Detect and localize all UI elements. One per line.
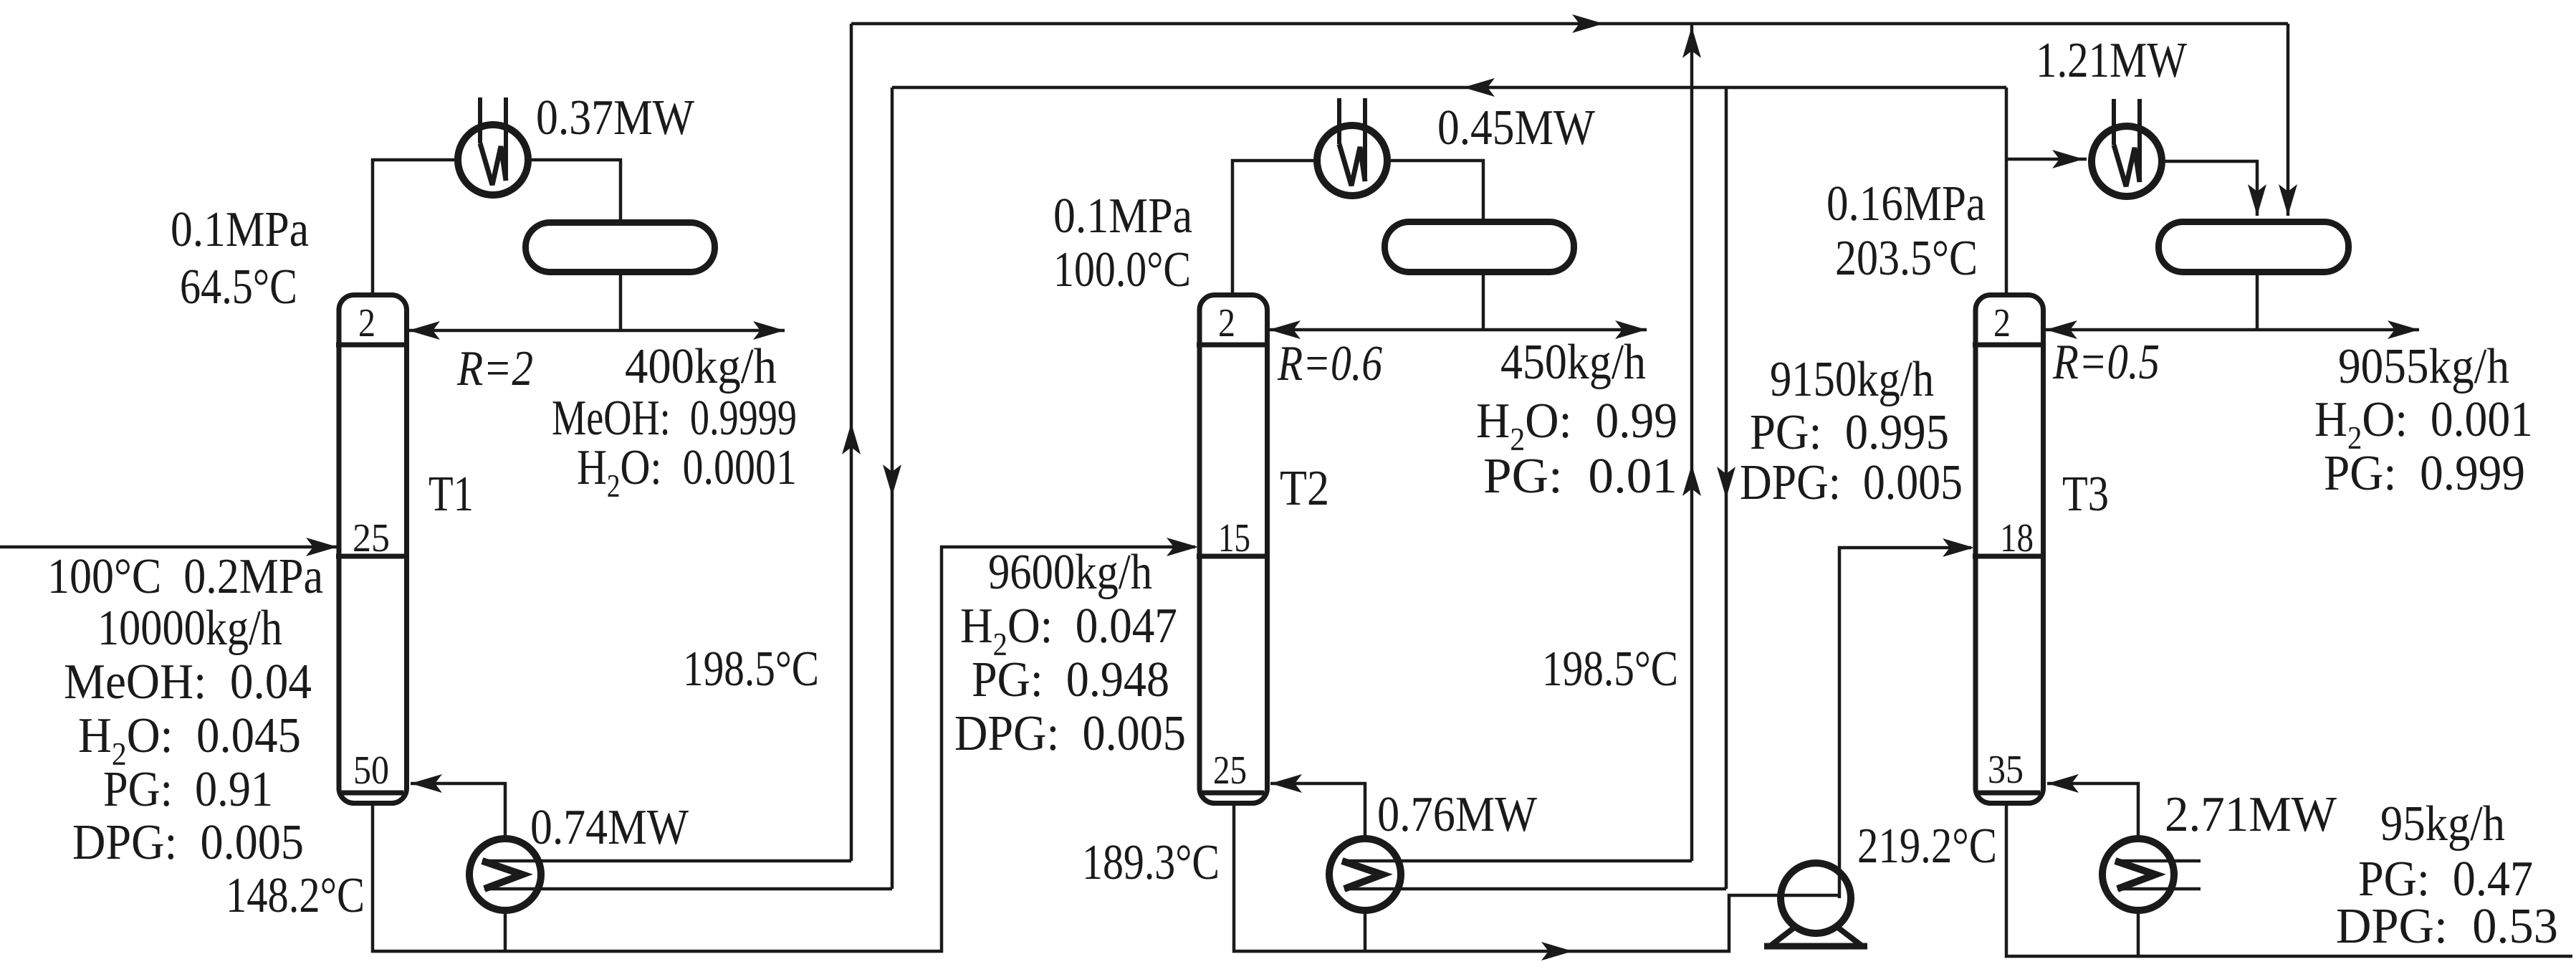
pump P1 circle	[1781, 863, 1851, 933]
column T2	[1200, 295, 1268, 804]
reflux drum D3	[2159, 222, 2349, 272]
wire: E6 steam stub (bottom)	[2117, 887, 2201, 891]
reboiler E2 circle (0.74MW)	[469, 839, 541, 910]
condenser E5 tube left	[2112, 99, 2116, 145]
wire: T3 vapor branch to condenser E5	[2006, 158, 2087, 161]
wire: T1 bottoms to T2 feed	[373, 547, 1195, 951]
wire: D3 outlet downcomer	[2256, 275, 2259, 330]
arrow: into drum D3 from header	[2279, 184, 2297, 216]
svg-text:MeOH: 0.04: MeOH: 0.04	[64, 654, 312, 710]
wire: T3 reflux / product line	[2046, 328, 2419, 332]
reflux drum D2	[1385, 222, 1574, 272]
svg-text:PG: 0.999: PG: 0.999	[2324, 446, 2525, 501]
wire: T3 bottoms line	[2006, 806, 2572, 956]
wire: D2 outlet downcomer	[1482, 275, 1485, 330]
svg-text:100.0°C: 100.0°C	[1053, 242, 1191, 297]
arrow: top header flow right	[1572, 14, 1604, 33]
column T3 top divider (stage 2)	[1973, 343, 2046, 348]
condenser E3 circle (0.45MW)	[1317, 125, 1387, 196]
svg-text:0.1MPa: 0.1MPa	[1053, 189, 1192, 244]
wire: reboiler E4 liquid draw	[1364, 910, 1367, 951]
wire: heating supply drop to E2	[891, 87, 894, 889]
pump P1 left foot	[1770, 928, 1794, 946]
column T3 bottom lens line	[1978, 791, 2040, 796]
svg-text:0.45MW: 0.45MW	[1437, 100, 1595, 156]
arrow: T2 distillate product out	[1615, 320, 1647, 339]
svg-text:0.74MW: 0.74MW	[530, 800, 689, 855]
column T2 top divider (stage 2)	[1197, 343, 1270, 348]
arrow: reflux into T3	[2046, 320, 2077, 339]
wire: T1 overhead vapor line	[373, 160, 454, 294]
svg-text:189.3°C: 189.3°C	[1082, 835, 1220, 890]
wire: E1 outlet to drum D1	[532, 160, 621, 219]
svg-text:25: 25	[353, 516, 390, 561]
svg-text:DPG: 0.005: DPG: 0.005	[954, 706, 1186, 761]
column T1 bottom lens line	[342, 791, 403, 796]
condenser E3 coil W	[1339, 144, 1365, 186]
wire: condensate riser from E2 to top header	[850, 24, 853, 861]
svg-text:198.5°C: 198.5°C	[1542, 642, 1678, 697]
svg-text:T1: T1	[428, 467, 474, 522]
svg-text:18: 18	[2000, 516, 2034, 561]
arrow: supply header flow left	[1463, 78, 1495, 97]
svg-text:DPG: 0.53: DPG: 0.53	[2336, 899, 2558, 954]
arrow: supply down flow	[883, 464, 901, 496]
wire: D1 outlet downcomer	[619, 275, 623, 330]
arrow: feed into T1 stage 25	[306, 538, 337, 556]
svg-text:R=2: R=2	[456, 341, 533, 396]
condenser E1 tube left	[478, 97, 482, 143]
svg-text:198.5°C: 198.5°C	[683, 642, 819, 697]
svg-text:PG: 0.995: PG: 0.995	[1750, 405, 1949, 460]
wire: T1 reflux / distillate product line	[408, 329, 785, 333]
arrow: T2 bottoms flow right	[1541, 942, 1573, 961]
wire: heating supply drop to E4	[1725, 87, 1728, 889]
arrow: return into T1 bottom	[411, 774, 442, 793]
wire: condensate riser from E4 to top header	[1690, 24, 1694, 861]
wire: reboiler E2 liquid draw	[504, 910, 507, 951]
wire: E5 outlet to drum D3	[2165, 161, 2257, 216]
condenser E3 tube left	[1337, 98, 1341, 144]
wire: E6 steam stub (top)	[2115, 859, 2201, 863]
svg-text:9600kg/h: 9600kg/h	[988, 545, 1152, 600]
condenser E1 tube right	[504, 97, 508, 181]
arrow: riser up flow lower	[1682, 464, 1701, 496]
arrow: reflux into T2	[1269, 320, 1301, 339]
svg-text:0.37MW: 0.37MW	[536, 90, 694, 146]
column T3 feed divider (stage 18)	[1973, 554, 2046, 559]
column T2 feed divider (stage 15)	[1197, 554, 1270, 559]
arrow: supply down flow to E4	[1717, 467, 1735, 498]
arrow: return into T3 bottom	[2047, 774, 2079, 793]
svg-text:0.1MPa: 0.1MPa	[171, 202, 309, 257]
arrow: return into T2 bottom	[1270, 774, 1302, 793]
svg-text:450kg/h: 450kg/h	[1500, 335, 1646, 390]
wire: heat-integration supply header (to reboilers)	[892, 86, 2006, 90]
svg-text:2: 2	[1218, 301, 1235, 346]
svg-text:PG: 0.91: PG: 0.91	[103, 762, 273, 817]
svg-text:219.2°C: 219.2°C	[1857, 819, 1997, 874]
condenser E5 tube right	[2137, 99, 2142, 182]
svg-text:PG: 0.948: PG: 0.948	[972, 652, 1169, 707]
svg-text:2: 2	[1993, 301, 2011, 346]
condenser E5 circle (1.21MW)	[2092, 126, 2162, 196]
wire: T2 overhead vapor line	[1232, 161, 1314, 297]
reboiler E4 circle (0.76MW)	[1329, 839, 1401, 910]
svg-text:95kg/h: 95kg/h	[2380, 796, 2505, 852]
svg-text:10000kg/h: 10000kg/h	[97, 601, 282, 656]
column T1	[339, 295, 407, 804]
pump P1 right foot	[1838, 928, 1862, 946]
arrow: feed into T3 stage 18	[1943, 538, 1974, 557]
arrow: into condenser E5	[2052, 150, 2084, 168]
svg-text:9055kg/h: 9055kg/h	[2338, 339, 2509, 394]
wire: T2 bottoms line to pump	[1234, 806, 1839, 951]
arrow: feed into T2 stage 15	[1167, 538, 1198, 556]
svg-text:35: 35	[1988, 748, 2024, 792]
svg-text:PG: 0.01: PG: 0.01	[1483, 449, 1677, 504]
wire: reboiler E6 liquid draw	[2137, 910, 2140, 956]
wire: pump discharge to T3 feed	[1839, 548, 1971, 898]
wire: E3 outlet to drum D2	[1391, 161, 1483, 219]
wire: E2 heating outlet pipe (top)	[482, 859, 851, 863]
wire: E2 heating inlet pipe (bottom)	[484, 887, 892, 891]
svg-text:2: 2	[358, 301, 375, 346]
arrow: distillate product out	[753, 321, 785, 340]
svg-text:148.2°C: 148.2°C	[226, 868, 365, 923]
reboiler E6 coil sigma	[2115, 861, 2155, 889]
svg-text:203.5°C: 203.5°C	[1835, 231, 1978, 286]
condenser E3 tube right	[1363, 98, 1367, 181]
pump P1 base bar	[1764, 943, 1867, 950]
svg-text:15: 15	[1218, 516, 1250, 561]
wire: reboiler E2 vapor return to T1	[411, 783, 505, 839]
svg-text:0.76MW: 0.76MW	[1377, 787, 1537, 842]
svg-text:T2: T2	[1280, 461, 1329, 516]
svg-text:64.5°C: 64.5°C	[180, 259, 297, 315]
wire: T2 reflux / distillate product line	[1269, 328, 1647, 332]
wire: feed line to T1	[0, 545, 337, 549]
svg-text:DPG: 0.005: DPG: 0.005	[72, 815, 304, 870]
arrow: T3 distillate product out	[2388, 320, 2419, 339]
column T1 feed divider (stage 25)	[336, 554, 409, 559]
condenser E1 coil W	[480, 143, 506, 185]
svg-text:DPG: 0.005: DPG: 0.005	[1740, 455, 1963, 510]
wire: E4 heating outlet pipe (top)	[1342, 859, 1692, 863]
column T3	[1976, 295, 2044, 804]
condenser E1 circle	[458, 125, 528, 195]
column T1 top divider (stage 2)	[336, 343, 409, 348]
reboiler E4 coil sigma	[1342, 861, 1382, 889]
wire: condensate return top header	[851, 22, 2288, 26]
arrow: into drum D3 from condenser	[2248, 184, 2266, 216]
svg-text:25: 25	[1213, 748, 1247, 793]
svg-text:2.71MW: 2.71MW	[2165, 787, 2337, 842]
arrow: riser up flow	[842, 423, 861, 454]
reboiler E6 circle (2.71MW)	[2102, 839, 2174, 910]
condenser E5 coil W	[2114, 145, 2140, 186]
arrow: riser up flow upper	[1682, 27, 1701, 58]
wire: E4 heating inlet pipe (bottom)	[1344, 887, 1726, 891]
wire: T3 overhead vapor riser to heat-integration header	[2005, 87, 2008, 297]
column T2 bottom lens line	[1202, 791, 1264, 796]
arrow: reflux into T1	[408, 321, 440, 340]
wire: reboiler E6 vapor return to T3	[2047, 783, 2138, 839]
svg-text:50: 50	[353, 748, 389, 793]
svg-text:100°C 0.2MPa: 100°C 0.2MPa	[47, 549, 323, 604]
svg-text:9150kg/h: 9150kg/h	[1770, 352, 1934, 407]
svg-text:0.16MPa: 0.16MPa	[1826, 176, 1986, 232]
svg-text:T3: T3	[2062, 467, 2109, 522]
reboiler E2 coil sigma	[482, 861, 522, 889]
reflux drum D1	[526, 223, 715, 272]
svg-text:H2O: 0.99: H2O: 0.99	[1476, 394, 1677, 457]
svg-text:MeOH: 0.9999: MeOH: 0.9999	[552, 391, 797, 446]
svg-text:R=0.5: R=0.5	[2052, 335, 2160, 390]
svg-text:1.21MW: 1.21MW	[2036, 33, 2187, 88]
svg-text:R=0.6: R=0.6	[1277, 336, 1382, 391]
wire: top header drop into drum D3	[2287, 24, 2290, 216]
wire: reboiler E4 vapor return to T2	[1270, 783, 1365, 839]
svg-text:400kg/h: 400kg/h	[625, 339, 777, 394]
